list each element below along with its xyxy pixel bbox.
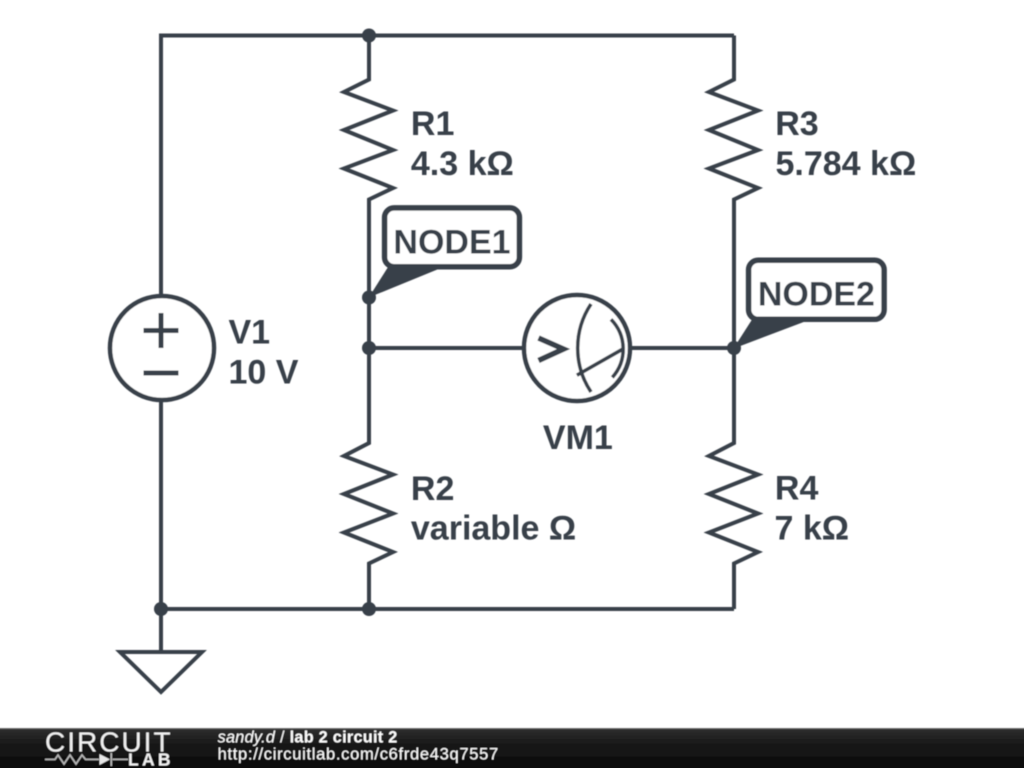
svg-text:http://circuitlab.com/c6frde43: http://circuitlab.com/c6frde43q7557 [218, 745, 499, 763]
svg-text:7 kΩ: 7 kΩ [775, 510, 850, 548]
svg-text:10 V: 10 V [229, 354, 299, 392]
svg-text:variable Ω: variable Ω [411, 509, 576, 547]
svg-text:4.3 kΩ: 4.3 kΩ [411, 145, 514, 183]
svg-text:R3: R3 [775, 105, 818, 143]
svg-text:R1: R1 [411, 105, 454, 143]
svg-text:V1: V1 [229, 314, 271, 352]
svg-text:VM1: VM1 [543, 419, 613, 457]
svg-text:5.784 kΩ: 5.784 kΩ [776, 145, 917, 183]
svg-text:R4: R4 [775, 470, 819, 508]
svg-text:NODE1: NODE1 [393, 224, 510, 262]
svg-text:R2: R2 [411, 470, 454, 508]
svg-text:NODE2: NODE2 [758, 275, 875, 313]
svg-text:sandy.d / lab 2 circuit 2: sandy.d / lab 2 circuit 2 [218, 729, 398, 747]
svg-text:LAB: LAB [128, 750, 174, 768]
